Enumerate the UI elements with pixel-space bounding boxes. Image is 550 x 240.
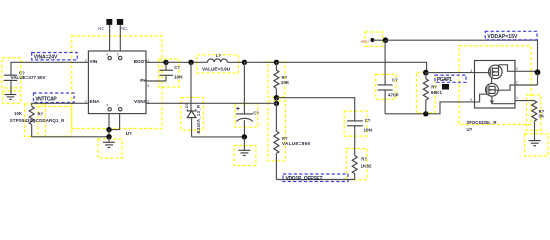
junction dot GND 2 (106, 134, 111, 139)
highlight box around enable resistor (25, 104, 46, 136)
svg-text:C?: C? (392, 77, 398, 82)
wire from enable resistor to ground node (32, 125, 107, 137)
wire gate node to power block pin 4 (426, 72, 475, 74)
pin circle bottom right (119, 108, 122, 111)
capacitor boot C 10N (160, 62, 174, 81)
wire analog ground branch (385, 102, 474, 114)
wire output rail to power block (276, 62, 426, 72)
highlight box around diode D1 (181, 97, 203, 130)
resistor R enable 10K (29, 106, 34, 125)
highlight box around IC U1 (72, 36, 162, 129)
highlight box around comp cap 10N (344, 111, 367, 136)
wire comp branch (276, 98, 354, 121)
wire right rail down (537, 72, 539, 85)
wire Q2 source to pin 1 (492, 96, 515, 104)
wire NC left to pin 4 (109, 25, 111, 51)
svg-text:10K: 10K (14, 111, 23, 116)
svg-text:NC: NC (98, 26, 104, 31)
wire Q1 source to Q2 drain (491, 78, 493, 83)
svg-text:C?: C? (365, 118, 371, 123)
svg-text:VDD1P_OFFSET: VDD1P_OFFSET (286, 176, 323, 182)
wire pin5 to gate Q2 (475, 94, 487, 102)
capacitor output polarized (236, 62, 253, 137)
wire switch node down to diode (190, 62, 192, 111)
highlight box around cap 470P (376, 74, 396, 99)
junction dot vddap (383, 37, 389, 43)
junction dot divider tap (274, 60, 279, 65)
svg-text:1: 1 (516, 96, 518, 100)
junction dot switch node (188, 60, 193, 65)
wire inductor to output node (227, 61, 244, 63)
highlight box around inductor value (197, 55, 238, 73)
power block U2 body (475, 61, 516, 109)
svg-text:2: 2 (516, 80, 518, 84)
svg-text:D?: D? (185, 103, 189, 108)
svg-text:B340A_13_R: B340A_13_R (196, 105, 201, 134)
highlight box around comp resistor 1K82 (346, 149, 367, 180)
svg-text:SFDC6330L_R: SFDC6330L_R (467, 120, 498, 125)
highlight box around input cap C1 (2, 58, 21, 88)
wire VIN rail from C1 to U1 (11, 62, 88, 75)
capacitor C1 input (4, 75, 18, 94)
wire comp network bottom (276, 179, 354, 181)
pin circle top left (108, 56, 111, 59)
highlight box around resistor R 10K divider (268, 62, 285, 97)
svg-text:IPR?: IPR? (361, 40, 369, 44)
current probe terminal (370, 38, 374, 42)
net label PGAP1 (435, 75, 466, 82)
svg-text:10K: 10K (281, 80, 290, 85)
svg-text:5: 5 (470, 98, 472, 102)
diode D1 schottky B340A (187, 109, 196, 137)
svg-text:BOOT: BOOT (134, 59, 148, 64)
net label VDDAP=15V (485, 31, 537, 40)
svg-text:VDDAP=15V: VDDAP=15V (487, 34, 518, 40)
pin circle top right (119, 56, 122, 59)
highlight box around resistor 3K (527, 95, 541, 131)
inductor L1 (208, 59, 228, 62)
svg-text:3: 3 (85, 100, 87, 104)
highlight box around right ground (525, 134, 549, 156)
svg-text:R?: R? (361, 156, 367, 161)
wire pin4 to gate Q1 (475, 72, 491, 74)
svg-text:10N: 10N (364, 128, 373, 133)
highlight box around resistor R 866 (268, 101, 286, 161)
junction dot output cap ground (242, 134, 247, 139)
polarity mark output cap (236, 107, 239, 110)
wire between divider dots (275, 98, 277, 104)
junction dot gate node (423, 70, 429, 76)
wire pin 2 to right rail (515, 84, 538, 86)
resistor R 866 (274, 103, 279, 179)
net label VNTTCAP (34, 93, 75, 103)
resistor 68K1 (423, 73, 428, 114)
highlight box around IC ground (98, 139, 122, 158)
svg-text:U?: U? (467, 127, 473, 132)
resistor 3K (532, 101, 537, 141)
junction dot comp tap (274, 95, 279, 100)
wire VDDAP rail (386, 40, 538, 72)
ground input (5, 95, 17, 100)
wire diode anode to ground rail (192, 136, 245, 138)
wire GND stub pin 9 (108, 114, 110, 130)
mosfet Q2 lower (486, 83, 499, 96)
svg-text:VSNS: VSNS (134, 99, 147, 104)
svg-text:U?: U? (126, 131, 132, 136)
pin circle bottom left (108, 108, 111, 111)
wire PH pin to boot cap (146, 80, 166, 82)
svg-text:R?: R? (38, 112, 44, 117)
resistor comp 1K82 (352, 156, 357, 180)
svg-text:ENA: ENA (90, 99, 101, 104)
junction dot right rail (535, 69, 541, 75)
highlight box around power block U2 (459, 46, 531, 125)
NC pin square right (117, 19, 123, 25)
svg-text:4: 4 (106, 53, 108, 57)
highlight box around resistor 68K1 (417, 72, 436, 113)
wire Q1 drain internal (499, 65, 516, 72)
ground right (529, 141, 541, 146)
highlight box around current probe (365, 32, 383, 46)
svg-text:C?: C? (174, 65, 180, 70)
svg-text:2: 2 (85, 59, 87, 63)
svg-text:R?: R? (431, 85, 437, 90)
svg-text:470P: 470P (388, 93, 399, 98)
wire output rail (244, 61, 276, 63)
highlight box around input ground (3, 91, 21, 104)
svg-text:VNTTCAP: VNTTCAP (35, 96, 57, 102)
svg-text:8: 8 (147, 84, 149, 88)
capacitor 470P (378, 40, 393, 114)
arrow Q2 source (490, 101, 494, 104)
svg-text:10N: 10N (174, 74, 183, 79)
ground under IC (103, 137, 115, 148)
svg-text:NC: NC (121, 26, 127, 31)
ground output cap (238, 137, 250, 156)
wire NC right to pin 6 (119, 25, 121, 51)
junction dot 68K1 bottom (423, 111, 428, 116)
highlight box around output cap ground (234, 146, 256, 166)
svg-text:3: 3 (516, 67, 518, 71)
svg-text:9: 9 (106, 104, 108, 108)
junction dot output cap tap (242, 60, 247, 65)
net label VINA=24V (32, 53, 77, 60)
wire probe to rail (372, 39, 385, 41)
junction dot vsense tap (274, 101, 279, 106)
wire GND stub pin 7 (109, 114, 120, 130)
svg-text:VIN: VIN (90, 59, 98, 64)
wire pin 1 to resistor 3K (515, 100, 535, 102)
svg-text:VALUE=477 50V: VALUE=477 50V (11, 75, 47, 80)
svg-text:PGAP1: PGAP1 (437, 77, 452, 83)
highlight box around boot cap (159, 59, 180, 87)
mosfet Q1 upper (489, 65, 503, 79)
svg-text:VALUE=866: VALUE=866 (282, 141, 310, 146)
svg-text:7: 7 (117, 104, 119, 108)
svg-text:VINA=24V: VINA=24V (34, 54, 58, 60)
resistor divider top 10K (274, 62, 279, 97)
net label VDD1P_OFFSET (283, 174, 348, 182)
svg-text:VALUE=3.9U: VALUE=3.9U (202, 67, 231, 72)
junction dot boot (163, 60, 168, 65)
svg-text:C?: C? (253, 111, 259, 116)
wire between ground dots (108, 130, 110, 137)
wire VSNS from IC to divider (146, 102, 276, 104)
IC U1 body (88, 51, 146, 114)
wire switch node rail (166, 61, 208, 63)
wire BOOT to boot cap node (146, 61, 166, 63)
capacitor comp 10N (347, 121, 363, 156)
junction dot GND 1 (106, 127, 111, 132)
highlight box around output cap (235, 104, 258, 128)
svg-text:4: 4 (470, 69, 472, 73)
svg-text:1K82: 1K82 (361, 163, 372, 168)
svg-text:3K: 3K (538, 114, 545, 119)
svg-text:6: 6 (117, 53, 119, 57)
wire pin 3 to right rail (515, 70, 538, 72)
svg-text:68K1: 68K1 (431, 90, 442, 95)
NC pin square left (106, 19, 112, 25)
wire Q2 to pin 2 (495, 85, 515, 90)
svg-text:STPS5430QCDDARQ1_R: STPS5430QCDDARQ1_R (10, 118, 65, 123)
NC square PGAP1 (442, 84, 449, 90)
wire ENA from resistor to U1 (32, 103, 89, 106)
svg-text:L?: L? (216, 53, 222, 58)
